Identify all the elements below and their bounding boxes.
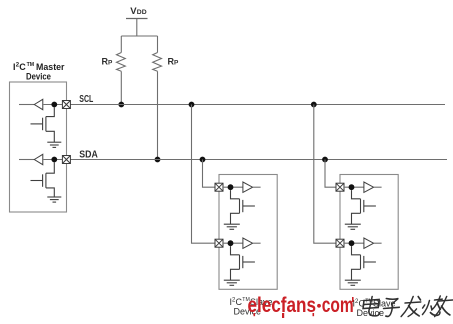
pin: master SCL pad: [62, 101, 70, 109]
wire: SCL bus: [70, 104, 445, 106]
label SCL: [79, 94, 93, 105]
wire: buffer A1 to pin: [43, 104, 62, 106]
svg-text:P: P: [108, 60, 113, 67]
resistor RP2: [153, 53, 162, 72]
node: SDA tap for slave 1: [200, 157, 206, 163]
svg-text:elecfans: elecfans: [248, 293, 317, 317]
node: SDA tap for slave 2: [322, 157, 328, 163]
wire: SDA bus: [70, 159, 447, 161]
svg-text:com: com: [322, 293, 354, 317]
label VDD: [130, 6, 146, 17]
watermark: Chinese characters (dian): [361, 297, 382, 316]
wire: SDA drop to slave 2: [325, 160, 336, 188]
wire: buffer A6 output stub: [374, 242, 382, 244]
svg-text:DD: DD: [137, 9, 147, 16]
wire: master SDA input: [19, 159, 34, 161]
label: I2C Master Device: [13, 62, 65, 82]
power symbol VDD: [126, 19, 148, 37]
transistor Q4 (slave1 SCL driver): [231, 246, 255, 280]
wire: SCL drop to slave 1: [192, 105, 216, 244]
watermark: Chinese characters (fa): [401, 297, 422, 317]
ground (Q2 source): [47, 197, 61, 202]
ground (Q1 source): [47, 142, 61, 147]
ground (Q5 source): [345, 224, 361, 229]
node: SCL tap for slave 2: [311, 102, 317, 108]
transistor Q6 (slave2 SCL driver): [352, 246, 376, 280]
wire: slave1 SDA pin to buffer: [223, 186, 243, 188]
pin: slave 1 SCL pad: [215, 239, 223, 247]
node: master SDA internal junction: [51, 157, 57, 163]
pin: slave 2 SCL pad: [336, 239, 344, 247]
wire: buffer A5 output stub: [374, 186, 382, 188]
buffer A2 (master SDA input): [34, 154, 43, 164]
I2C master device box U1: [10, 82, 67, 212]
wire: RP2 to SDA (crosses SCL): [157, 71, 159, 159]
wire: buffer A4 output stub: [253, 242, 261, 244]
label: I2C Slave Device (slave 2): [353, 299, 396, 319]
wire: master SCL input: [19, 104, 34, 106]
buffer A3 (slave1 SDA input): [243, 182, 253, 192]
wire: RP1 to SCL: [120, 71, 122, 104]
svg-text:Master: Master: [36, 62, 65, 72]
transistor Q5 (slave2 SDA driver): [352, 190, 376, 224]
wire: SDA drop to slave 1: [203, 160, 216, 188]
ground (Q6 source): [345, 280, 361, 285]
buffer A1 (master SCL input): [34, 99, 43, 109]
wire: slave2 SDA pin to buffer: [344, 186, 364, 188]
wire: right leg to RP2: [157, 36, 159, 53]
wire: buffer A3 output stub: [253, 186, 261, 188]
svg-text:C: C: [19, 62, 26, 72]
buffer A5 (slave2 SDA input): [364, 182, 374, 192]
ground (Q4 source): [224, 280, 240, 285]
svg-text:TM: TM: [27, 62, 34, 68]
pin: slave 2 SDA pad: [336, 183, 344, 191]
wire: SCL drop to slave 2: [314, 105, 336, 244]
node: RP1/SCL junction: [118, 102, 124, 108]
label: I2C Slave Device (slave 1): [230, 297, 273, 317]
label RP1: [102, 57, 114, 67]
pin: master SDA pad: [62, 156, 70, 164]
transistor Q2 (master SDA driver): [31, 162, 55, 197]
node: slave2 SCL internal junction: [349, 240, 355, 246]
I2C slave device box U2: [219, 175, 277, 290]
node: slave2 SDA internal junction: [349, 184, 355, 190]
watermark: Chinese characters (you): [435, 297, 453, 317]
svg-text:SCL: SCL: [79, 94, 93, 105]
pin: slave 1 SDA pad: [215, 183, 223, 191]
label SDA: [79, 149, 98, 160]
buffer A4 (slave1 SCL input): [243, 238, 253, 248]
node: slave1 SDA internal junction: [228, 184, 234, 190]
node: SCL tap for slave 1: [189, 102, 195, 108]
I2C slave device box U3: [340, 175, 398, 290]
wire: slave1 SCL pin to buffer: [223, 242, 243, 244]
node: RP2/SDA junction: [155, 157, 161, 163]
node: slave1 SCL internal junction: [228, 240, 234, 246]
svg-text:SDA: SDA: [79, 149, 98, 160]
wire: buffer A2 to pin: [43, 159, 62, 161]
watermark: elecfans.com: [248, 293, 354, 318]
label RP2: [168, 57, 180, 67]
node: master SCL internal junction: [51, 102, 57, 108]
wire: slave2 SCL pin to buffer: [344, 242, 364, 244]
svg-text:Device: Device: [26, 72, 51, 82]
transistor Q1 (master SCL driver): [31, 107, 55, 142]
transistor Q3 (slave1 SDA driver): [231, 190, 255, 224]
resistor RP1: [117, 53, 126, 72]
wire: VDD rail split: [121, 35, 157, 37]
buffer A6 (slave2 SCL input): [364, 238, 374, 248]
svg-text:P: P: [174, 60, 179, 67]
ground (Q3 source): [224, 224, 240, 229]
wire: left leg to RP1: [120, 36, 122, 53]
watermark: Chinese characters (zi): [382, 299, 401, 317]
watermark: Chinese characters (shao): [421, 296, 443, 315]
